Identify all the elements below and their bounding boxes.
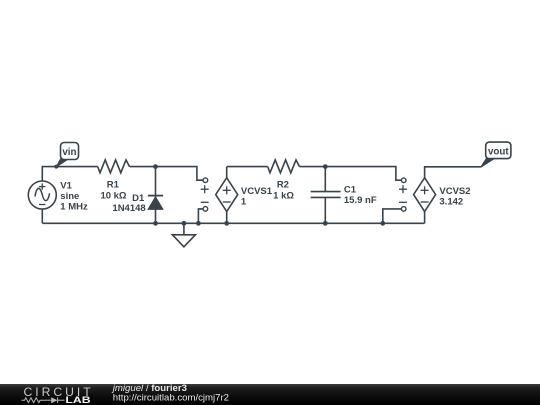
junction dots	[153, 164, 385, 226]
node VCVS1 bottom	[224, 221, 229, 226]
svg-text:vin: vin	[62, 147, 76, 158]
resistor R1	[98, 160, 130, 173]
capacitor C1 top lead	[324, 167, 326, 192]
wire diode branch vertical	[155, 167, 157, 224]
svg-text:R1: R1	[107, 180, 120, 191]
svg-text:1 MHz: 1 MHz	[60, 202, 88, 213]
diode D1	[148, 196, 163, 210]
svg-text:1: 1	[241, 196, 247, 207]
node flag vout	[481, 142, 511, 167]
footer credit text	[111, 383, 229, 403]
wire VCVS2 minus input to bottom rail	[383, 209, 402, 223]
svg-text:http://circuitlab.com/cjmj7r2: http://circuitlab.com/cjmj7r2	[113, 393, 229, 404]
wire bottom rail (ground net)	[42, 222, 424, 224]
wire V1 bottom lead	[41, 209, 43, 223]
node diode bottom	[153, 221, 158, 226]
node C1 bottom	[323, 221, 328, 226]
capacitor C1 plates	[311, 191, 341, 193]
ground	[172, 223, 195, 247]
wire VCVS1 top	[226, 167, 228, 178]
node C1 top	[323, 164, 328, 169]
op-amp VCVS1 (dependent source diamond)	[216, 178, 238, 212]
resistor R2	[268, 160, 300, 173]
svg-text:1 kΩ: 1 kΩ	[273, 190, 294, 201]
svg-text:1N4148: 1N4148	[112, 203, 145, 214]
capacitor C1 bottom lead	[324, 197, 326, 223]
CircuitLab logo wordmark	[22, 385, 92, 405]
VCVS2 value labels	[439, 186, 470, 207]
svg-text:10 kΩ: 10 kΩ	[100, 190, 126, 201]
node diode top	[153, 164, 158, 169]
wire top rail R2 to VCVS2 plus input	[300, 167, 402, 181]
wire VCVS1 bottom	[226, 212, 228, 224]
svg-text:C1: C1	[344, 185, 357, 196]
R1 value labels	[100, 180, 126, 202]
wire top rail left (vin net)	[42, 167, 97, 181]
VCVS1 input polarity labels	[201, 185, 209, 202]
VCVS2 input polarity labels	[399, 185, 407, 202]
footer bar	[0, 384, 540, 405]
wire top rail R1 to VCVS1 plus input	[130, 167, 204, 181]
wire VCVS2 bottom	[424, 212, 426, 224]
svg-text:sine: sine	[60, 191, 79, 202]
node VCVS2 minus junction	[380, 221, 385, 226]
C1 value labels	[344, 185, 377, 207]
voltage source V1	[28, 181, 56, 209]
VCVS2 input port terminals	[401, 178, 406, 211]
svg-text:15.9 nF: 15.9 nF	[344, 195, 377, 206]
wire top rail VCVS1 to R2	[227, 166, 268, 168]
VCVS1 value labels	[241, 186, 273, 207]
svg-text:vout: vout	[488, 146, 509, 157]
VCVS1 input port terminals	[203, 178, 208, 211]
svg-text:V1: V1	[60, 180, 72, 191]
svg-text:R2: R2	[277, 180, 289, 191]
V1 value labels	[60, 180, 88, 212]
svg-text:LAB: LAB	[65, 395, 90, 405]
R2 value labels	[273, 180, 294, 202]
node flag vin	[54, 143, 78, 169]
node VCVS1 minus junction	[196, 221, 201, 226]
node ground junction	[182, 221, 187, 226]
wire VCVS2 top to vout	[425, 167, 481, 178]
svg-text:3.142: 3.142	[439, 196, 463, 207]
op-amp VCVS2 (dependent source diamond)	[414, 178, 436, 212]
wire VCVS1 minus input to bottom rail	[198, 209, 203, 223]
D1 value labels	[112, 193, 145, 214]
